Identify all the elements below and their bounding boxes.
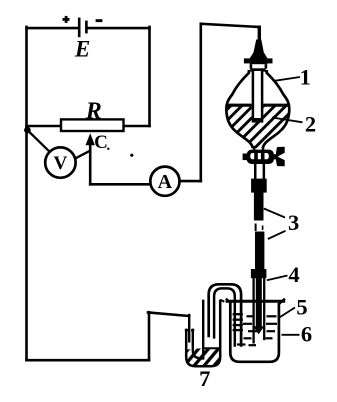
svg-text:E: E <box>74 37 90 62</box>
svg-text:4: 4 <box>288 262 299 287</box>
svg-text:V: V <box>54 153 68 174</box>
svg-text:5: 5 <box>296 295 307 320</box>
svg-text:6: 6 <box>301 322 312 347</box>
svg-text:3: 3 <box>288 210 299 235</box>
svg-text:2: 2 <box>305 111 316 136</box>
svg-text:C: C <box>94 132 108 153</box>
svg-text:A: A <box>158 171 173 193</box>
svg-text:1: 1 <box>300 65 311 90</box>
svg-text:R: R <box>85 98 102 124</box>
svg-text:7: 7 <box>199 366 210 391</box>
